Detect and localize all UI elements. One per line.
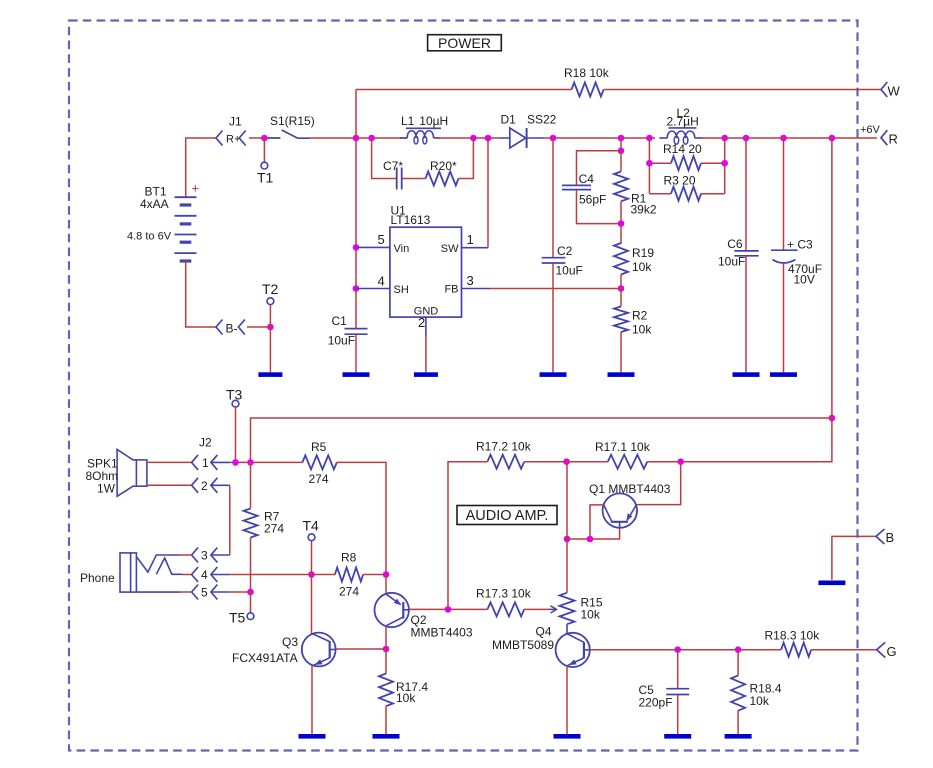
node rail x356 — [353, 135, 360, 142]
wire R17.4 to ground — [385, 706, 387, 734]
svg-text:C2: C2 — [557, 244, 573, 258]
wire C2 branch — [552, 138, 554, 257]
wire C3 branch — [783, 138, 785, 250]
node SW riser — [485, 135, 492, 142]
resistor R17.4 — [379, 674, 393, 707]
wire GND pin to ground — [425, 336, 427, 372]
node T4 junction — [308, 571, 315, 578]
svg-text:J1: J1 — [229, 115, 242, 129]
node R14 right riser — [721, 135, 728, 142]
svg-text:R19: R19 — [632, 246, 654, 260]
node C7 branch right — [470, 135, 477, 142]
ground at U1 — [414, 372, 438, 377]
wire Q3 emitter to ground — [311, 665, 313, 734]
capacitor C4 — [562, 185, 591, 189]
node R14 left — [646, 160, 653, 167]
ground at Q3 — [299, 734, 326, 739]
node R17.3 left — [445, 606, 452, 613]
test point T2 — [267, 298, 274, 305]
resistor R7 — [244, 509, 258, 538]
svg-text:220pF: 220pF — [639, 696, 673, 710]
resistor R18.3 — [781, 643, 811, 657]
ground at C2 — [540, 372, 567, 377]
ground at Q4 — [554, 734, 581, 739]
node C6 branch — [743, 135, 750, 142]
wire right riser to R17.1 row — [681, 418, 832, 462]
U1 pin 1 SW — [462, 247, 489, 249]
wire C1 to ground — [355, 335, 357, 373]
capacitor C2 — [542, 258, 566, 263]
svg-text:5: 5 — [201, 586, 208, 600]
node Q2 emitter junction — [383, 571, 390, 578]
svg-text:Vin: Vin — [394, 243, 410, 255]
wire battery negative — [186, 261, 216, 327]
wire rail down right side — [831, 138, 833, 418]
svg-text:274: 274 — [339, 585, 359, 599]
svg-text:5: 5 — [378, 232, 385, 247]
wire audio feed line y418 — [251, 418, 832, 462]
wire Q1 emitter riser — [636, 462, 681, 505]
svg-text:+ C3: + C3 — [787, 238, 813, 252]
node R14 left riser — [646, 135, 653, 142]
test point T4 — [308, 534, 315, 541]
svg-text:C6: C6 — [727, 237, 743, 251]
wire Q2 collector down — [385, 626, 387, 649]
wire C5 to ground — [677, 695, 679, 734]
svg-text:10µH: 10µH — [419, 114, 448, 128]
wire FB to R19R2 node — [490, 288, 621, 290]
svg-text:AUDIO AMP.: AUDIO AMP. — [466, 508, 549, 524]
wire battery positive to rail — [186, 138, 216, 197]
wire Q4 emitter to ground — [566, 666, 568, 734]
node audio top right — [829, 415, 836, 422]
speaker SPK1 — [117, 449, 136, 496]
resistor R17.2 — [487, 455, 524, 469]
svg-text:4: 4 — [378, 274, 385, 289]
wire pin4 row — [230, 574, 335, 576]
node R18.4 junction — [735, 646, 742, 653]
resistor R18.4 — [731, 676, 745, 711]
node Q1 collector junction — [587, 536, 594, 543]
capacitor C6 — [734, 251, 758, 256]
svg-text:R17.2 10k: R17.2 10k — [476, 440, 532, 454]
U1 pin 4 SH — [356, 288, 390, 290]
svg-text:10k: 10k — [396, 691, 416, 705]
node SH junction — [353, 285, 360, 292]
resistor R17.1 — [608, 455, 647, 469]
svg-text:Phone: Phone — [80, 571, 115, 585]
svg-text:Q3: Q3 — [282, 635, 298, 649]
svg-text:R18.3 10k: R18.3 10k — [765, 629, 821, 643]
connector J2 pin 1 — [192, 455, 199, 470]
wire R14 stubs — [649, 162, 671, 164]
node C7 branch left — [368, 135, 375, 142]
svg-text:274: 274 — [264, 522, 284, 536]
resistor R18 — [572, 83, 604, 97]
wire C2 to ground — [552, 263, 554, 372]
wire B terminal — [832, 536, 876, 579]
wire Q4 base row — [590, 649, 781, 651]
resistor R15 — [560, 593, 575, 624]
wire L2 to rail right — [700, 137, 877, 139]
terminal B — [876, 529, 884, 544]
svg-text:R2: R2 — [632, 309, 648, 323]
wire C4 branch top — [577, 151, 622, 185]
node C2 branch — [550, 135, 557, 142]
connector J2 pin 2 — [192, 478, 199, 493]
svg-text:1: 1 — [202, 456, 209, 470]
svg-text:T1: T1 — [257, 170, 274, 186]
svg-text:10k: 10k — [632, 323, 652, 337]
svg-text:1: 1 — [467, 232, 474, 247]
svg-text:10k: 10k — [632, 260, 652, 274]
phone jack ring contact — [156, 558, 182, 574]
svg-text:R17.1 10k: R17.1 10k — [595, 440, 651, 454]
wire FB node to R2 — [620, 289, 622, 307]
wire Q2 emitter lead — [385, 575, 387, 595]
svg-text:W: W — [888, 84, 901, 99]
test point T1 — [261, 162, 268, 169]
wire C5 branch — [677, 650, 679, 689]
svg-text:R3 20: R3 20 — [664, 174, 696, 188]
diode D1 — [500, 137, 544, 139]
wire SW riser to rail — [487, 138, 489, 248]
svg-text:T5: T5 — [229, 610, 246, 626]
wire pin1 row — [230, 461, 302, 463]
svg-text:C1: C1 — [332, 314, 348, 328]
svg-text:+: + — [192, 181, 200, 196]
phone jack tip contact — [136, 555, 180, 572]
svg-text:1W: 1W — [97, 482, 116, 496]
terminal G — [877, 642, 886, 657]
wire speaker minus — [147, 484, 192, 486]
wire Q2 base to R17.3 node — [409, 608, 448, 610]
battery BT1 — [175, 196, 197, 198]
wire R19 to FB node — [620, 275, 622, 289]
terminal R — [881, 130, 887, 145]
svg-text:SS22: SS22 — [527, 113, 557, 127]
svg-text:FCX491ATA: FCX491ATA — [232, 651, 298, 665]
wire T3 to pin1 row — [235, 407, 237, 462]
node C5 junction — [674, 646, 681, 653]
wire C6 branch — [745, 138, 747, 251]
R15 wiper arrow — [549, 606, 557, 613]
wire T2 node to ground — [269, 327, 271, 372]
wire R8 to Q2 node — [363, 574, 386, 576]
terminal W — [881, 82, 887, 97]
wire R3 stubs — [649, 193, 671, 195]
wire R18 corner down to C1 — [355, 90, 357, 329]
transistor Q4 MMBT5089 — [556, 633, 590, 667]
wire R14 left riser — [648, 138, 650, 194]
node C4R1 top — [618, 148, 625, 155]
wire Q3 collector from T4 node — [311, 575, 313, 635]
svg-text:Q4: Q4 — [536, 625, 552, 639]
wire pin1 to R7 — [250, 462, 252, 508]
svg-text:C4: C4 — [579, 172, 595, 186]
wire Q3 base to node — [336, 648, 386, 650]
svg-text:S1(R15): S1(R15) — [270, 114, 315, 128]
inductor L1 — [400, 137, 407, 139]
test point T3 — [232, 400, 239, 407]
wire R5 to Q2 emitter riser — [337, 462, 386, 574]
wire pin2 to pin3 tie — [229, 485, 231, 555]
wire W line right — [604, 89, 881, 91]
wire R18.3 to G — [811, 649, 877, 651]
op-amp U1 LT1613 body — [390, 227, 462, 317]
wire R15 to Q4 collector — [566, 624, 568, 634]
svg-text:GND: GND — [414, 306, 439, 318]
resistor R20* — [426, 172, 459, 186]
connector J1 — [216, 131, 223, 146]
ground at C6 — [733, 372, 760, 377]
svg-text:G: G — [887, 644, 897, 659]
resistor R19 — [614, 243, 628, 275]
svg-text:10k: 10k — [750, 694, 770, 708]
svg-text:T2: T2 — [262, 281, 279, 297]
U1 pin 3 FB — [462, 288, 491, 290]
wire C4 branch bottom — [577, 190, 622, 224]
wire T5 stub — [250, 592, 252, 613]
ground at C5 — [664, 734, 691, 739]
svg-text:R20*: R20* — [430, 159, 457, 173]
wire R17.2 to node — [524, 461, 566, 463]
svg-text:L1: L1 — [401, 114, 415, 128]
svg-text:R14 20: R14 20 — [663, 142, 702, 156]
wire tip to pin3 — [180, 554, 192, 556]
node R17.1 left — [563, 458, 570, 465]
node main right riser — [829, 135, 836, 142]
wire R2 to ground — [620, 332, 622, 372]
node C4R1 bottom — [618, 220, 625, 227]
svg-text:10V: 10V — [794, 273, 815, 287]
node pin5 junction — [247, 589, 254, 596]
ground at C1 — [343, 372, 370, 377]
wire rail to C4R1 top node — [620, 138, 622, 151]
node Vin junction — [353, 244, 360, 251]
U1 pin 2 GND — [425, 317, 427, 336]
ground at T2 — [258, 372, 282, 377]
node R15 riser junction — [564, 536, 571, 543]
transistor Q2 MMBT4403 — [375, 593, 409, 627]
connector B- arrows — [216, 320, 223, 335]
resistor R17.3 — [487, 602, 524, 616]
capacitor C5 — [666, 689, 689, 695]
node T1 junction — [261, 135, 268, 142]
svg-text:10uF: 10uF — [556, 264, 583, 278]
node R14 right — [721, 160, 728, 167]
wire Q1 base down — [567, 528, 620, 539]
svg-text:4xAA: 4xAA — [140, 197, 169, 211]
wire Q1 collector down — [590, 505, 604, 539]
svg-text:FB: FB — [444, 284, 458, 296]
svg-text:R18 10k: R18 10k — [564, 66, 610, 80]
wire C3 to ground — [783, 263, 785, 372]
svg-text:10uF: 10uF — [718, 255, 745, 269]
wire C6 to ground — [745, 256, 747, 372]
connector J2 pin 5 — [192, 585, 199, 600]
svg-text:T3: T3 — [226, 387, 243, 403]
wire R17.3 to wiper — [524, 608, 549, 610]
wire W line left — [356, 89, 572, 91]
ground at R2 — [608, 372, 635, 377]
wire to T1 — [263, 138, 265, 162]
wire R20 up to rail — [459, 138, 474, 179]
wire B- to T2 node — [247, 326, 270, 328]
resistor R2 — [614, 307, 628, 333]
svg-text:LT1613: LT1613 — [391, 213, 431, 227]
wire J1 to switch — [249, 137, 265, 139]
switch S1(R15) — [267, 130, 310, 138]
svg-text:3: 3 — [467, 273, 474, 288]
capacitor C3 — [771, 249, 798, 251]
resistor R5 — [302, 455, 336, 469]
phone jack body — [120, 553, 136, 592]
wire R17.3 row — [448, 608, 487, 610]
wire T2 stub — [269, 305, 271, 328]
inductor L2 — [659, 137, 667, 139]
svg-text:SH: SH — [394, 284, 409, 296]
svg-text:Q1 MMBT4403: Q1 MMBT4403 — [589, 482, 671, 496]
wire C7 to R20 — [402, 178, 426, 180]
POWER title box — [428, 35, 502, 51]
wire R17.1 node down to R15 — [566, 462, 568, 593]
wire sleeve to pin5 — [180, 591, 192, 593]
wire R1 top stub — [620, 151, 622, 172]
svg-text:10k: 10k — [581, 608, 601, 622]
svg-text:4: 4 — [201, 568, 208, 582]
node T2 junction — [267, 324, 274, 331]
svg-text:R: R — [889, 132, 898, 147]
connector J2 pin 3 — [192, 548, 199, 563]
svg-text:R8: R8 — [341, 551, 357, 565]
wire L1 to D1 section — [436, 137, 500, 139]
svg-text:10uF: 10uF — [328, 334, 355, 348]
connector J2 pin 4 — [192, 567, 199, 582]
wire node to R17.4 — [385, 649, 387, 674]
svg-text:T4: T4 — [303, 518, 320, 534]
resistor R3 — [671, 187, 701, 201]
wire T4 stub — [311, 541, 313, 575]
wire R17.2 left riser — [448, 462, 487, 610]
svg-text:2: 2 — [201, 479, 208, 493]
wire R7 to pin5 node — [250, 538, 252, 593]
U1 pin 5 Vin — [356, 246, 390, 248]
wire node to R17.1 — [567, 461, 608, 463]
svg-text:J2: J2 — [199, 436, 212, 450]
transistor Q1 MMBT4403 — [603, 493, 637, 527]
wire D1 cathode to rail — [544, 137, 655, 139]
svg-text:R17.3 10k: R17.3 10k — [476, 587, 532, 601]
ground at B — [818, 581, 845, 586]
svg-text:B-: B- — [226, 322, 238, 336]
resistor R1 — [614, 172, 628, 202]
wire switch to rail node — [310, 137, 356, 139]
svg-text:56pF: 56pF — [579, 192, 606, 206]
svg-text:R5: R5 — [311, 440, 327, 454]
node C4 R1 branch — [618, 135, 625, 142]
ground at R17.4 — [373, 734, 400, 739]
svg-text:3: 3 — [201, 549, 208, 563]
wire R1 bottom stub — [620, 201, 622, 223]
capacitor C7* — [397, 168, 402, 190]
node T3 junction — [232, 459, 239, 466]
resistor R8 — [335, 568, 363, 582]
phone jack sleeve contact — [136, 591, 180, 593]
node Q3 base junction — [383, 646, 390, 653]
capacitor C1 — [345, 329, 368, 335]
svg-text:R+: R+ — [226, 134, 240, 146]
transistor Q3 FCX491ATA — [302, 633, 336, 667]
node FB junction — [618, 285, 625, 292]
svg-text:SW: SW — [441, 243, 459, 255]
svg-text:MMBT4403: MMBT4403 — [411, 626, 473, 640]
svg-text:POWER: POWER — [438, 35, 491, 51]
wire C7 branch — [372, 138, 397, 179]
svg-text:4.8 to 6V: 4.8 to 6V — [127, 231, 172, 243]
resistor R14 — [671, 156, 701, 170]
node R17.1 right — [677, 458, 684, 465]
test point T5 — [247, 613, 254, 620]
svg-text:C7*: C7* — [383, 159, 403, 173]
svg-text:D1: D1 — [501, 113, 517, 127]
svg-text:39k2: 39k2 — [631, 203, 657, 217]
wire speaker plus — [147, 461, 192, 463]
AUDIO AMP title box — [457, 506, 557, 525]
svg-text:B: B — [886, 530, 895, 545]
wire R14 right riser — [724, 138, 726, 194]
wire ring to pin4 — [182, 574, 192, 576]
svg-text:2.7µH: 2.7µH — [667, 115, 699, 129]
ground at C3 — [770, 372, 797, 377]
node feed junction — [247, 459, 254, 466]
svg-text:+6V: +6V — [860, 124, 881, 136]
wire R1 to R19 — [620, 224, 622, 244]
wire R18.4 to ground — [737, 711, 739, 734]
wire rail to L1 — [356, 137, 406, 139]
svg-text:274: 274 — [309, 472, 329, 486]
wire R17.1 to right node — [647, 461, 681, 463]
ground at R18.4 — [725, 734, 752, 739]
node C3 branch — [780, 135, 787, 142]
wire R18.4 branch — [737, 650, 739, 676]
wire pin5 row — [230, 591, 250, 593]
svg-text:MMBT5089: MMBT5089 — [492, 638, 554, 652]
